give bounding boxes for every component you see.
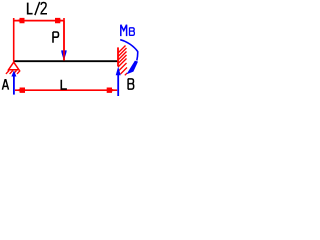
fixed wall at B face bbox=[117, 47, 119, 66]
label L/2 bbox=[28, 2, 47, 15]
force P arrowhead bbox=[61, 50, 66, 60]
wall hatching bbox=[118, 46, 127, 76]
background bbox=[0, 0, 145, 105]
label B bbox=[128, 79, 134, 90]
dimension L: line and arrowheads bbox=[15, 88, 117, 93]
label P bbox=[53, 32, 59, 43]
label A bbox=[2, 80, 8, 90]
force P line (red over blue head) bbox=[63, 21, 65, 61]
label B subscript of MB bbox=[129, 28, 134, 36]
moment MB arc bbox=[120, 40, 138, 61]
dimension L/2: extension lines, line, arrowheads bbox=[14, 18, 64, 62]
label M of MB bbox=[121, 25, 127, 36]
moment MB arrowhead bbox=[126, 61, 138, 75]
reaction arrow at A bbox=[11, 71, 16, 95]
support A hatching bbox=[6, 71, 20, 74]
pin support triangle at A bbox=[9, 62, 19, 69]
reaction arrow at B bbox=[116, 67, 121, 97]
label L bbox=[61, 80, 67, 89]
beam AB bbox=[14, 60, 118, 62]
